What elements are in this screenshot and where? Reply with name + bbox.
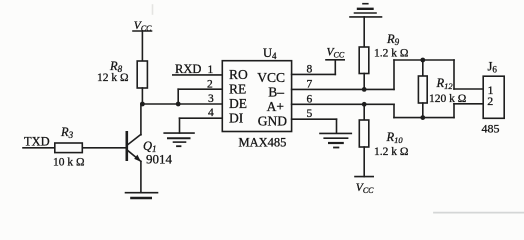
faint smudge above VCC — [152, 5, 154, 14]
label U4 — [263, 46, 277, 61]
label TXD — [24, 134, 50, 148]
label R3 — [60, 125, 74, 140]
wire node B up to pin 2 RE — [178, 89, 222, 104]
value 1.2 k ohm R10 — [374, 146, 408, 158]
wire A+ line to R10 — [363, 104, 365, 120]
resistor R3 — [55, 143, 83, 153]
power VCC bar below R10 — [355, 176, 373, 178]
transistor Q1 body — [127, 132, 141, 162]
svg-text:1.2 k Ω: 1.2 k Ω — [374, 47, 408, 59]
wire ground to R9 — [363, 17, 365, 47]
label R8 — [109, 59, 123, 74]
ground at pin 4 — [164, 133, 194, 146]
chip pin name DE — [229, 96, 247, 111]
wire TXD input — [23, 147, 55, 149]
svg-text:RE: RE — [229, 82, 246, 97]
pin number 5 — [307, 108, 313, 120]
label R10 — [386, 130, 404, 145]
IC U4 MAX485 chip box — [222, 61, 291, 132]
wire rail to R12 top — [422, 60, 424, 76]
wire R3 to Q1 base — [82, 147, 126, 149]
wire RXD to pin 1 RO — [173, 74, 223, 76]
svg-text:2: 2 — [207, 78, 213, 90]
resistor R10 — [359, 120, 369, 147]
chip pin name A+ — [267, 99, 284, 114]
wire Q1 emitter to ground — [140, 161, 142, 192]
svg-text:3: 3 — [208, 93, 214, 105]
svg-text:R10: R10 — [386, 130, 404, 145]
label MAX485 — [239, 135, 287, 149]
power VCC bar at pin 8 — [326, 59, 344, 61]
svg-text:TXD: TXD — [24, 134, 50, 148]
value 120 k ohm — [429, 93, 466, 105]
wire R8 to node A — [141, 88, 143, 104]
chip pin name RE — [229, 82, 246, 97]
wire top rail to J6 pin 1 — [454, 60, 483, 89]
svg-text:RO: RO — [229, 67, 248, 82]
label R9 — [386, 32, 400, 47]
wire pin 5 GND — [292, 119, 337, 133]
pin number 6 — [307, 93, 313, 105]
svg-text:VCC: VCC — [134, 20, 152, 33]
node A junction dot — [140, 102, 145, 107]
svg-text:B–: B– — [268, 85, 284, 100]
svg-text:R12: R12 — [436, 76, 454, 91]
value 9014 — [146, 152, 173, 167]
pin number 4 — [208, 107, 214, 119]
wire B- up to top rail — [394, 60, 454, 89]
label RXD — [175, 62, 201, 76]
svg-text:7: 7 — [307, 78, 313, 90]
svg-text:VCC: VCC — [327, 46, 345, 59]
label J6 — [488, 60, 498, 75]
svg-text:1: 1 — [208, 64, 214, 76]
svg-text:1.2 k Ω: 1.2 k Ω — [374, 146, 408, 158]
svg-text:485: 485 — [482, 122, 500, 136]
pin number 2 — [207, 78, 213, 90]
ground below Q1 — [126, 193, 158, 198]
svg-text:GND: GND — [258, 114, 287, 129]
scrollbar artifact bottom right — [434, 212, 524, 214]
resistor R12 — [418, 76, 427, 103]
svg-text:10 k Ω: 10 k Ω — [53, 157, 85, 169]
power VCC top left bar — [133, 30, 152, 32]
connector pin 2 label — [487, 94, 493, 108]
pin number 1 — [208, 64, 214, 76]
junction dot R10 on A+ — [362, 102, 367, 107]
node B junction dot — [176, 102, 181, 107]
connector pin 1 label — [488, 83, 494, 97]
label VCC below R10 — [356, 182, 374, 195]
wire Q1 collector up to node A — [140, 104, 142, 135]
wire VCC to R8 — [141, 31, 143, 61]
resistor R8 — [137, 61, 147, 88]
svg-text:DE: DE — [229, 96, 247, 111]
svg-text:8: 8 — [307, 63, 313, 75]
svg-text:VCC: VCC — [257, 70, 285, 85]
ground above R9 (inverted) — [350, 4, 382, 17]
wire pin 4 DI to ground — [180, 118, 223, 133]
chip pin name VCC — [257, 70, 285, 85]
label 485 — [482, 122, 500, 136]
value 10 k ohm — [53, 157, 85, 169]
wire pin 7 B- — [292, 88, 394, 90]
svg-text:4: 4 — [208, 107, 214, 119]
label VCC top left — [134, 20, 152, 33]
chip pin name DI — [229, 111, 244, 126]
svg-text:MAX485: MAX485 — [239, 135, 287, 149]
svg-text:120 k Ω: 120 k Ω — [429, 93, 466, 105]
svg-text:RXD: RXD — [175, 62, 201, 76]
wire pin 6 A+ — [292, 103, 394, 105]
wire bottom rail to J6 pin 2 — [454, 104, 483, 118]
svg-text:5: 5 — [307, 108, 313, 120]
wire R9 to B- line — [363, 74, 365, 90]
value 12 k ohm — [97, 72, 129, 84]
connector J6 box — [483, 76, 504, 118]
svg-text:VCC: VCC — [356, 182, 374, 195]
junction dot R12 bottom — [420, 115, 425, 120]
wire pin 8 VCC — [292, 60, 336, 75]
wire A+ down to bottom rail — [394, 104, 454, 117]
svg-text:J6: J6 — [488, 60, 498, 75]
svg-text:DI: DI — [229, 111, 244, 126]
resistor R9 — [359, 47, 369, 74]
svg-text:9014: 9014 — [146, 152, 173, 167]
junction dot R12 top — [420, 58, 425, 63]
label Q1 — [143, 139, 157, 154]
junction dot R9 on B- — [362, 87, 367, 92]
svg-text:6: 6 — [307, 93, 313, 105]
svg-text:U4: U4 — [263, 46, 277, 61]
value 1.2 k ohm R9 — [374, 47, 408, 59]
wire R10 to VCC bar — [363, 147, 365, 177]
pin number 8 — [307, 63, 313, 75]
svg-text:A+: A+ — [267, 99, 284, 114]
ground at pin 5 — [320, 133, 351, 147]
svg-text:12 k Ω: 12 k Ω — [97, 72, 129, 84]
chip pin name GND — [258, 114, 287, 129]
svg-text:2: 2 — [487, 94, 493, 108]
pin number 3 — [208, 93, 214, 105]
label VCC at pin 8 — [327, 46, 345, 59]
pin number 7 — [307, 78, 313, 90]
wire R12 bottom to rail — [422, 103, 424, 118]
chip pin name RO — [229, 67, 248, 82]
label R12 — [436, 76, 454, 91]
wire node A to pin 3 DE — [142, 103, 222, 105]
svg-text:R9: R9 — [386, 32, 400, 47]
svg-text:R3: R3 — [60, 125, 74, 140]
chip pin name B- — [268, 85, 284, 100]
